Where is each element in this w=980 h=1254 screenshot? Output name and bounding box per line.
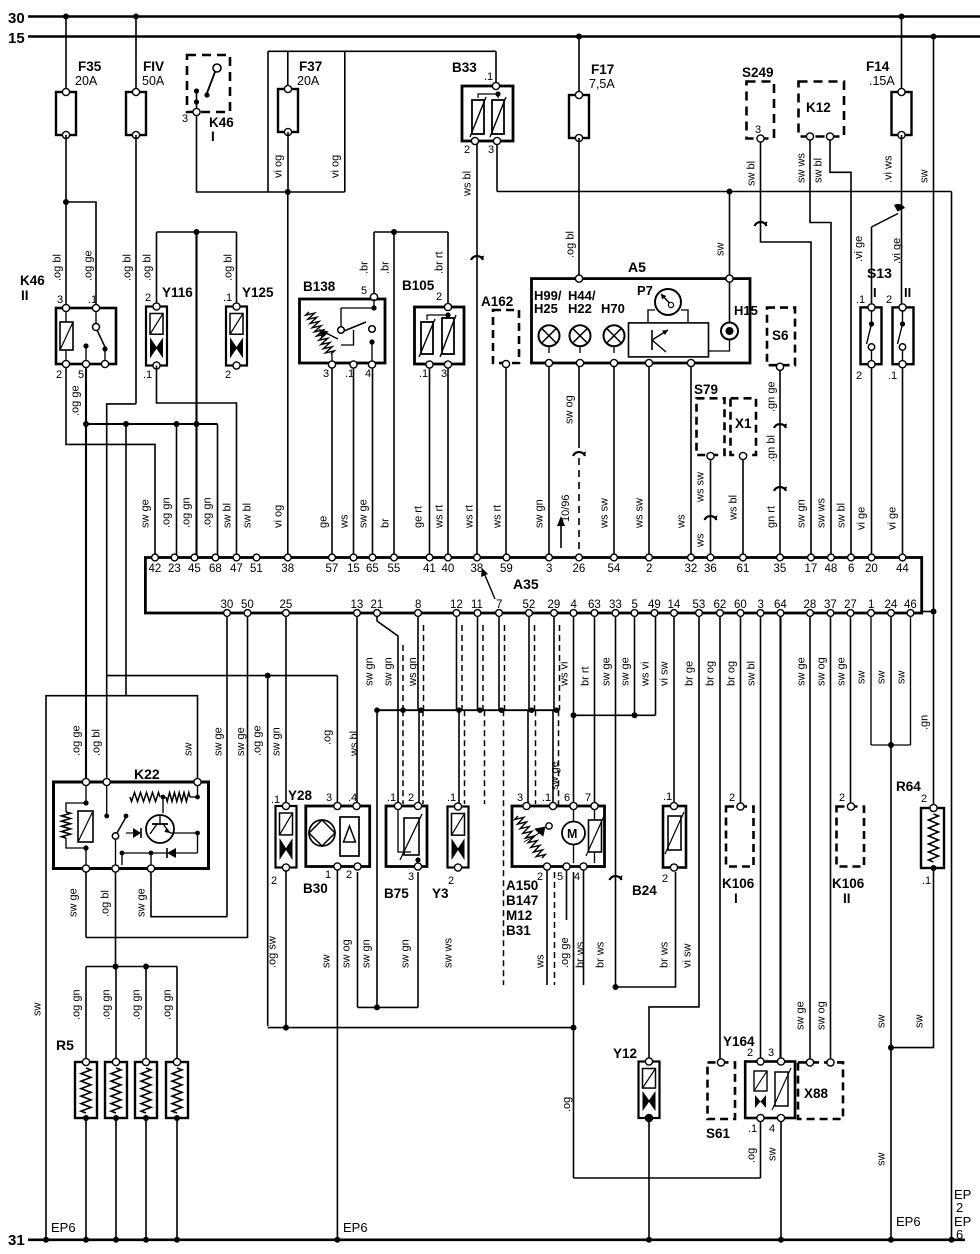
svg-text:II: II xyxy=(904,285,911,300)
svg-text:.og gn: .og gn xyxy=(161,497,173,528)
junction bus710 xyxy=(499,707,505,713)
svg-text:.og: .og xyxy=(746,1148,758,1163)
svg-text:sw ge: sw ge xyxy=(140,499,152,528)
svg-text:.og: .og xyxy=(322,730,334,745)
wire A150 pin4 down br ws xyxy=(583,870,585,985)
pin of S61 xyxy=(717,1059,724,1066)
wire top feed F37/B33 xyxy=(268,50,496,52)
wire A162 to pin 59 xyxy=(505,367,507,557)
svg-text:ge: ge xyxy=(318,516,330,528)
wire A5 to pin 26 sw og / dashed 10/96 xyxy=(578,366,580,448)
svg-text:.1: .1 xyxy=(223,292,232,304)
wire pin3 to Y164 pin2 xyxy=(760,616,762,1059)
component B24 box xyxy=(663,806,686,868)
wire R5 4 to bus31 xyxy=(176,1118,178,1240)
wire og bl jog to K22 pin2 xyxy=(107,404,136,780)
svg-text:br ws: br ws xyxy=(659,941,671,968)
wire A5 to pin 3 sw gn xyxy=(548,366,550,557)
lamp H99/H25 xyxy=(539,325,560,346)
svg-text:K46: K46 xyxy=(209,115,234,130)
B75 internal sensor xyxy=(404,818,419,855)
wire bus424 to ground loop xyxy=(125,424,127,696)
K22 internal transistor xyxy=(146,815,174,843)
pin 3 of Y164 xyxy=(777,1058,784,1065)
svg-text:sw gn: sw gn xyxy=(361,939,373,968)
B105 internal sensors xyxy=(445,312,450,317)
wire bus30 to F14 xyxy=(901,17,903,93)
wire F37 loop left riser xyxy=(267,51,269,192)
wire to R5 resistor 4 xyxy=(176,967,178,1061)
svg-text:32: 32 xyxy=(685,563,698,575)
svg-text:38: 38 xyxy=(281,563,294,575)
wire pin28 to X88 xyxy=(809,616,811,1060)
svg-text:28: 28 xyxy=(804,599,817,611)
wire pin7 to bus710 xyxy=(498,616,500,710)
wire 1178 horizontal xyxy=(574,1177,761,1179)
A150 internal motor M xyxy=(562,822,585,845)
svg-text:62: 62 xyxy=(714,599,727,611)
svg-text:2: 2 xyxy=(448,875,454,887)
svg-text:sw gn: sw gn xyxy=(383,657,395,686)
wire pin25 down to Y28 xyxy=(285,616,287,806)
wire Y12 to bus31 xyxy=(648,1118,650,1240)
pin of K22 top b xyxy=(103,778,110,785)
svg-text:sw: sw xyxy=(914,1015,926,1029)
svg-text:.og bl: .og bl xyxy=(142,254,154,281)
B138 internal potentiometer xyxy=(306,312,335,354)
svg-text:sw ge: sw ge xyxy=(795,1001,807,1030)
pin 1 of B138 xyxy=(350,361,357,368)
svg-text:.15A: .15A xyxy=(869,74,895,88)
junction merge 24 xyxy=(888,742,894,748)
svg-text:.og bl: .og bl xyxy=(91,729,103,756)
svg-text:.og bl: .og bl xyxy=(52,254,64,281)
junction bus424 a xyxy=(83,421,89,427)
svg-text:.gn bl: .gn bl xyxy=(766,435,778,462)
junction bus30/F14 xyxy=(899,14,905,20)
svg-text:X1: X1 xyxy=(735,416,752,431)
svg-text:2: 2 xyxy=(346,869,352,881)
svg-text:EP6: EP6 xyxy=(343,1220,368,1235)
junction bus710 xyxy=(529,707,535,713)
valve Y28 xyxy=(276,806,297,868)
svg-text:X88: X88 xyxy=(804,1086,829,1101)
wire to Y125 pin1 xyxy=(236,232,238,307)
svg-text:2: 2 xyxy=(408,792,414,804)
svg-text:.og gn: .og gn xyxy=(181,497,193,528)
svg-text:EP6: EP6 xyxy=(896,1214,921,1229)
wire junction to vi og riser xyxy=(288,191,345,193)
pin 2 of B33 xyxy=(471,137,478,144)
relay K12 box xyxy=(799,82,845,137)
svg-text:41: 41 xyxy=(423,563,436,575)
svg-text:7,5A: 7,5A xyxy=(589,77,615,91)
dashed A150 container left xyxy=(503,710,505,985)
svg-text:sw: sw xyxy=(876,671,888,685)
svg-text:ws bl: ws bl xyxy=(728,495,740,521)
wire S13 I to pin 20 xyxy=(871,368,873,557)
wire R5 3 to bus31 xyxy=(145,1118,147,1240)
svg-text:30: 30 xyxy=(221,599,234,611)
svg-text:sw bl: sw bl xyxy=(813,158,825,183)
K22 internal diode bottom xyxy=(167,848,176,858)
junction bus31 R5 2 xyxy=(113,1237,119,1243)
svg-text:6: 6 xyxy=(848,563,854,575)
pin 1 of B33 xyxy=(492,82,499,89)
svg-text:K22: K22 xyxy=(134,766,160,782)
fuse F37 xyxy=(278,89,298,132)
svg-text:ws: ws xyxy=(695,533,707,548)
svg-text:B30: B30 xyxy=(303,881,328,896)
svg-text:gn rt: gn rt xyxy=(766,506,778,528)
resistor R5 element 1 xyxy=(75,1062,97,1118)
svg-text:2: 2 xyxy=(464,144,470,156)
lamp H44/H22 xyxy=(570,325,591,346)
svg-text:H25: H25 xyxy=(534,301,558,316)
arrow S249 wire xyxy=(755,222,767,226)
svg-text:1: 1 xyxy=(325,869,331,881)
wire bus424 to pin 23 xyxy=(176,424,178,557)
svg-text:59: 59 xyxy=(500,563,513,575)
svg-text:sw bl: sw bl xyxy=(222,503,234,528)
wire pin52 to bus710 xyxy=(528,616,530,710)
svg-text:3: 3 xyxy=(755,124,761,136)
wire B30 pin1 to bus31 xyxy=(336,869,338,1240)
svg-text:4: 4 xyxy=(365,368,371,380)
wire F17 to A5 xyxy=(578,138,580,279)
svg-text:24: 24 xyxy=(885,599,898,611)
wire pin24 down xyxy=(890,616,892,1047)
svg-text:R5: R5 xyxy=(56,1037,74,1053)
svg-text:20: 20 xyxy=(865,563,878,575)
svg-text:Y116: Y116 xyxy=(162,285,193,300)
wire F37 bottom xyxy=(287,132,289,192)
component B33 box xyxy=(462,86,513,141)
svg-text:15: 15 xyxy=(8,30,25,47)
dashed below bus 423 xyxy=(422,710,424,804)
svg-text:S6: S6 xyxy=(772,328,789,343)
junction bus31 right xyxy=(949,1237,955,1243)
A150 internal resistor xyxy=(589,820,602,852)
svg-text:23: 23 xyxy=(168,563,181,575)
relay K106 I box xyxy=(726,807,754,867)
wire Y164 pin4 to bus31 xyxy=(780,1122,782,1240)
pin 2 of A150 bottom xyxy=(543,863,550,870)
connector X88 box xyxy=(798,1062,843,1119)
svg-text:.br rt: .br rt xyxy=(434,251,446,274)
svg-text:53: 53 xyxy=(693,599,706,611)
svg-text:50: 50 xyxy=(241,599,254,611)
junction bus710 xyxy=(400,707,406,713)
pin 1 of B105 xyxy=(426,361,433,368)
wire R64 pin1 down xyxy=(933,871,935,1048)
wire A150 pin2 down ws xyxy=(546,870,548,985)
A5 driver box xyxy=(629,323,709,357)
junction 1027/573 xyxy=(571,1025,577,1031)
svg-text:36: 36 xyxy=(704,563,717,575)
svg-text:52: 52 xyxy=(523,599,536,611)
svg-text:.og sw: .og sw xyxy=(267,936,279,968)
svg-text:Y164: Y164 xyxy=(723,1034,755,1049)
svg-text:.1: .1 xyxy=(484,71,493,83)
pin of K22 top a xyxy=(82,778,89,785)
svg-text:H15: H15 xyxy=(734,303,758,318)
svg-text:sw: sw xyxy=(896,671,908,685)
junction bus424 c xyxy=(174,421,180,427)
svg-text:sw ge: sw ge xyxy=(836,657,848,686)
wire Y116 pin1 / Y125 pin2 to pin 47 xyxy=(157,366,237,558)
arrow ws bl wire xyxy=(471,256,483,260)
svg-text:13: 13 xyxy=(351,599,364,611)
A5 bottom pins xyxy=(545,359,552,366)
svg-text:S13: S13 xyxy=(867,265,892,281)
wire br rt to B105 pin2 xyxy=(447,232,449,306)
junction Y116/Y125 link xyxy=(194,229,200,235)
dashed below bus 535 xyxy=(535,710,537,804)
svg-text:3: 3 xyxy=(57,294,63,306)
svg-text:sw ge: sw ge xyxy=(68,888,80,917)
resistor R5 element 4 xyxy=(166,1062,188,1118)
wire 1007 horizontal xyxy=(358,1006,419,1008)
svg-text:2: 2 xyxy=(956,1200,963,1215)
pin a of X88 xyxy=(806,1059,813,1066)
svg-text:4: 4 xyxy=(769,1123,775,1135)
svg-text:A150: A150 xyxy=(506,878,538,893)
svg-text:1: 1 xyxy=(868,599,874,611)
wire S13 I pin1 riser xyxy=(871,227,873,304)
svg-text:3: 3 xyxy=(323,368,329,380)
svg-text:sw ge: sw ge xyxy=(358,499,370,528)
bus 710 sensor ground xyxy=(377,709,560,711)
svg-text:.og bl: .og bl xyxy=(122,254,134,281)
svg-text:br og: br og xyxy=(705,661,717,686)
svg-text:.vi ge: .vi ge xyxy=(891,238,903,264)
arrow gn wire 2 xyxy=(774,487,786,491)
pin 2 of R64 xyxy=(930,804,937,811)
svg-text:br ge: br ge xyxy=(684,661,696,686)
pin 2 of B105 xyxy=(444,303,451,310)
wire pin63 to A150 pin7 xyxy=(594,616,596,804)
svg-text:sw ws: sw ws xyxy=(443,938,455,968)
wire pin7 dashed alt xyxy=(504,625,506,710)
wire R5 top bus xyxy=(86,966,177,968)
svg-text:.og ge: .og ge xyxy=(70,385,82,416)
valve Y125 xyxy=(226,307,247,366)
svg-text:K46: K46 xyxy=(20,273,45,288)
svg-text:B75: B75 xyxy=(384,886,409,901)
arrowhead S13 diagonal xyxy=(894,204,905,212)
wire merge 1/24/46 xyxy=(871,744,911,746)
svg-text:2: 2 xyxy=(662,873,668,885)
svg-text:64: 64 xyxy=(774,599,787,611)
svg-text:sw bl: sw bl xyxy=(242,503,254,528)
svg-text:51: 51 xyxy=(250,563,263,575)
svg-text:B138: B138 xyxy=(303,279,336,294)
wire bus710 left drop xyxy=(376,710,378,1007)
junction bus31 46 xyxy=(43,1237,49,1243)
switch S13 I box xyxy=(861,307,882,364)
svg-text:br ws: br ws xyxy=(575,941,587,968)
svg-text:sw gn: sw gn xyxy=(271,727,283,756)
pin 7 of A150 top xyxy=(591,802,598,809)
svg-text:21: 21 xyxy=(371,599,384,611)
pin of K22 bottom a xyxy=(82,865,89,872)
wire bus710 end to A150 pin1 xyxy=(552,710,554,804)
svg-text:sw ge: sw ge xyxy=(796,657,808,686)
arrow ws S79 xyxy=(705,516,717,520)
relay K106 II box xyxy=(837,807,865,867)
pin 2 of K106 II xyxy=(847,803,854,810)
svg-text:10/96: 10/96 xyxy=(560,494,572,522)
svg-text:vi og: vi og xyxy=(273,155,285,178)
relay K46 I box xyxy=(187,55,230,112)
svg-text:54: 54 xyxy=(608,563,621,575)
svg-text:2: 2 xyxy=(646,563,652,575)
valve Y12 xyxy=(639,1062,660,1119)
B30 internal temp sensor xyxy=(340,817,359,856)
junction bus15/F17 xyxy=(576,34,582,40)
svg-text:33: 33 xyxy=(609,599,622,611)
wire pin46 down xyxy=(910,616,912,745)
junction bus710 xyxy=(374,707,380,713)
pin 4 of B30 xyxy=(353,802,360,809)
svg-text:3: 3 xyxy=(408,871,414,883)
component A150 box xyxy=(512,806,605,867)
connector X1 box xyxy=(731,398,757,455)
junction br link xyxy=(391,229,397,235)
pin 5 of B138 xyxy=(370,293,377,300)
pin b of X88 xyxy=(827,1059,834,1066)
wire pin62 to S61 xyxy=(719,616,721,1060)
svg-text:.og ge: .og ge xyxy=(83,250,95,281)
svg-text:.vi ge: .vi ge xyxy=(853,236,865,262)
svg-text:2: 2 xyxy=(886,294,892,306)
pin of S79 xyxy=(707,452,714,459)
svg-text:B31: B31 xyxy=(506,923,531,938)
pin 1 of B75 xyxy=(394,802,401,809)
svg-text:S249: S249 xyxy=(742,65,774,80)
pin 5 of K46 II xyxy=(82,360,89,367)
junction 1027/286 xyxy=(283,1025,289,1031)
wire pin21 jog to B75 xyxy=(377,616,398,804)
wire Y116-Y125 top link xyxy=(157,231,237,233)
svg-text:2: 2 xyxy=(271,875,277,887)
pin of K46 II right xyxy=(101,360,108,367)
wire pin12 dashed alt xyxy=(461,625,463,710)
dashed below bus 558 xyxy=(558,710,560,806)
svg-text:.og: .og xyxy=(561,1097,573,1112)
svg-text:R64: R64 xyxy=(896,779,921,794)
pin 2 of K46 II xyxy=(62,360,69,367)
fuse F35 xyxy=(56,92,76,135)
svg-text:I: I xyxy=(873,285,877,300)
wire R5 1 to bus31 xyxy=(85,1118,87,1240)
wire pin29 dashed alt xyxy=(559,625,561,710)
svg-text:.1: .1 xyxy=(271,794,280,806)
pin 2 of Y164 xyxy=(757,1058,764,1065)
svg-text:2: 2 xyxy=(839,792,845,804)
pin 2 of B24 xyxy=(670,864,677,871)
svg-text:68: 68 xyxy=(209,563,222,575)
svg-text:3: 3 xyxy=(441,368,447,380)
component B30 box xyxy=(306,806,370,867)
svg-text:sw: sw xyxy=(715,243,727,257)
svg-text:ws sw: ws sw xyxy=(599,498,611,529)
svg-text:S61: S61 xyxy=(706,1126,731,1141)
pin 3 of B105 xyxy=(444,361,451,368)
wire X1 to pin 61 xyxy=(742,460,744,557)
svg-text:.4: .4 xyxy=(348,792,357,804)
wire pin21 dashed alt xyxy=(402,645,404,710)
wire bus710 to Y3 pin1 xyxy=(458,710,460,804)
K22 internal resistor network xyxy=(62,812,71,838)
wire to R5 resistor 1 xyxy=(85,967,87,1061)
svg-text:A5: A5 xyxy=(628,259,646,275)
svg-text:vi sw: vi sw xyxy=(682,944,694,969)
junction F37/vi og xyxy=(285,189,291,195)
K22 internal resistors top xyxy=(130,793,160,802)
svg-text:K12: K12 xyxy=(806,100,831,115)
svg-text:K106: K106 xyxy=(722,876,755,891)
svg-text:.1: .1 xyxy=(387,792,396,804)
wire S13 diagonal xyxy=(872,214,899,228)
svg-text:5: 5 xyxy=(557,871,563,883)
junction bus710 xyxy=(477,707,483,713)
wire bus15 to F17 xyxy=(578,37,580,96)
svg-text:4: 4 xyxy=(571,599,578,611)
svg-text:I: I xyxy=(211,129,215,144)
junction Y12 bottom xyxy=(646,1115,652,1121)
svg-text:2: 2 xyxy=(145,292,151,304)
svg-text:sw ge: sw ge xyxy=(235,727,247,756)
svg-text:48: 48 xyxy=(825,563,838,575)
junction bus30/F1V xyxy=(133,14,139,20)
junction bus31 R5 3 xyxy=(143,1237,149,1243)
pin 3 of B138 xyxy=(328,361,335,368)
junction bus30/F35 xyxy=(63,14,69,20)
junction R5 b xyxy=(143,964,149,970)
svg-text:br: br xyxy=(380,518,392,528)
wire to B33 pin1 xyxy=(495,51,497,86)
svg-text:M: M xyxy=(567,827,577,841)
junction og bl/og ge xyxy=(63,199,69,205)
svg-text:vi ge: vi ge xyxy=(856,507,868,530)
svg-text:M12: M12 xyxy=(506,908,532,923)
pin 1 of A150 top xyxy=(549,802,556,809)
wire pin13 to B30 pin4 xyxy=(356,616,358,804)
wire K12 pin1 to pin 48 xyxy=(810,140,831,557)
wire B138 pin5 up xyxy=(373,232,375,294)
connector S79 box xyxy=(697,398,725,455)
pin of X1 xyxy=(739,452,746,459)
svg-text:.og bl: .og bl xyxy=(223,254,235,281)
svg-text:P7: P7 xyxy=(637,283,653,298)
pin 3 of A150 top xyxy=(523,802,530,809)
wire F35 to K46II pin3 xyxy=(65,135,67,308)
lamp H70 xyxy=(604,325,625,346)
wire pin49 down xyxy=(655,616,657,715)
svg-text:.1: .1 xyxy=(88,294,97,306)
wire 715 down to A150 pin6 xyxy=(573,715,575,804)
wire pin11 to bus710 xyxy=(477,616,479,710)
pin of K22 top c xyxy=(194,778,201,785)
svg-text:20A: 20A xyxy=(297,74,320,88)
dashed below bus 403 xyxy=(402,710,404,804)
svg-text:.1: .1 xyxy=(856,294,865,306)
wire pin33 to B24 pin2 xyxy=(616,616,676,987)
wire K46II pin2 to pin 42 xyxy=(66,368,155,557)
svg-text:A162: A162 xyxy=(481,294,513,309)
